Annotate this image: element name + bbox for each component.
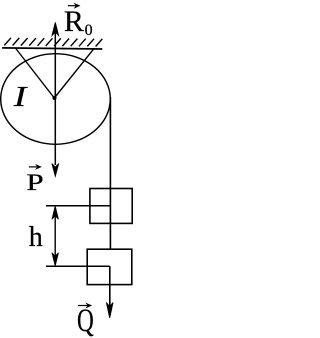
right support strut [54,49,94,98]
left support strut [15,48,54,98]
svg-text:Q: Q [77,303,94,338]
svg-text:I: I [13,81,29,113]
block 2 (lower load) [87,249,132,284]
arrowhead P (down) [52,164,59,177]
vector bar over Q [78,304,91,308]
h top tick [46,205,110,207]
vertical axis line [54,28,56,165]
block 1 (upper load) [90,189,132,224]
ceiling hatches [4,38,102,47]
svg-text:0: 0 [85,22,93,39]
svg-text:h: h [29,222,43,253]
arrowhead R0 (up) [52,22,59,35]
axle dot [52,96,56,100]
ceiling line [2,48,102,49]
vector bar over P [29,165,41,169]
svg-text:R: R [64,5,84,38]
rope on right side [109,97,111,249]
lower rope to Q [109,266,111,306]
h bottom tick [46,265,110,267]
vector bar over R [68,4,80,8]
h dimension arrow [52,206,58,266]
svg-text:P: P [26,170,43,195]
arrowhead Q (down) [106,303,113,319]
pulley wheel [1,54,111,145]
